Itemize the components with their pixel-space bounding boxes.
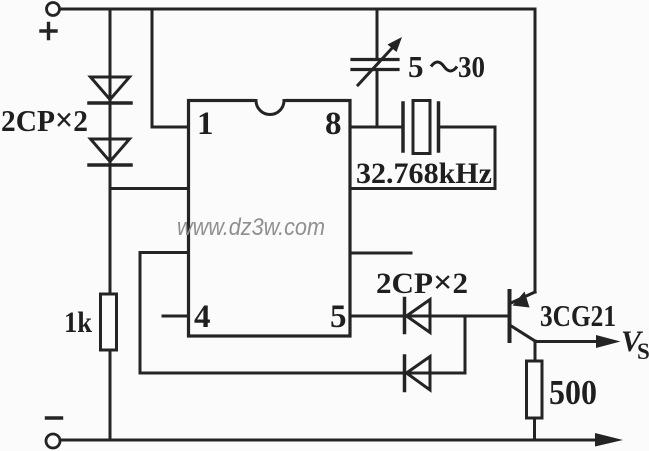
wire pin 8 to crystal (350, 126, 403, 129)
wire collector output to Vs (535, 340, 600, 343)
wire pin 5 to transistor base (350, 315, 508, 318)
wire pin 1 from rail (152, 9, 188, 127)
svg-text:4: 4 (194, 299, 211, 335)
svg-text:2CP×2: 2CP×2 (376, 265, 468, 301)
wire bottom negative rail (61, 439, 600, 442)
svg-text:5: 5 (408, 49, 424, 84)
svg-text:2CP×2: 2CP×2 (1, 102, 88, 139)
svg-text:5: 5 (330, 299, 347, 335)
svg-text:3CG21: 3CG21 (540, 298, 616, 333)
label 5~30 (408, 49, 485, 84)
svg-text:30: 30 (458, 49, 485, 84)
wire top positive rail (61, 8, 535, 11)
diode D1 (top, 2CP) (89, 77, 131, 103)
wire crystal to IC right edge (feedback box) (350, 127, 495, 189)
label Vs output (621, 325, 649, 364)
svg-text:500: 500 (549, 373, 597, 412)
resistor R2 500 (527, 361, 543, 418)
wire loop pin(left) to lower diode row (140, 253, 465, 374)
terminal - (minus) (46, 418, 62, 448)
transistor Q1 3CG21 (510, 291, 536, 341)
wire resistor to bottom rail (533, 418, 536, 440)
diode D2 (second, 2CP) (89, 139, 131, 165)
svg-text:32.768kHz: 32.768kHz (356, 157, 492, 190)
capacitor C1 variable (trimmer) (352, 9, 402, 127)
op-amp / IC U1 body (189, 101, 351, 337)
wire from diode chain to IC left (node) (110, 187, 188, 190)
svg-text:8: 8 (325, 106, 342, 142)
svg-text:1: 1 (197, 106, 214, 142)
crystal Y1 32.768kHz (403, 101, 439, 154)
diode D4 (2CP, on loop line) (405, 356, 431, 391)
IC notch (256, 101, 284, 115)
svg-text:www.dz3w.com: www.dz3w.com (177, 214, 325, 241)
resistor R1 1k (101, 294, 117, 350)
wire collector down to resistor (534, 341, 537, 361)
svg-text:1k: 1k (64, 306, 92, 339)
bottom rail arrowhead (595, 433, 623, 447)
wire pin 4 stub (163, 315, 188, 318)
Vs arrowhead (596, 335, 621, 348)
diode D3 (2CP, on pin5 line) (405, 299, 431, 333)
wire left diode-chain vertical (109, 9, 112, 440)
wire unconnected stub right of IC (350, 252, 411, 255)
svg-text:S: S (637, 339, 649, 364)
terminal + (plus) (41, 3, 60, 39)
wire right vertical from rail to transistor emitter (534, 9, 537, 292)
